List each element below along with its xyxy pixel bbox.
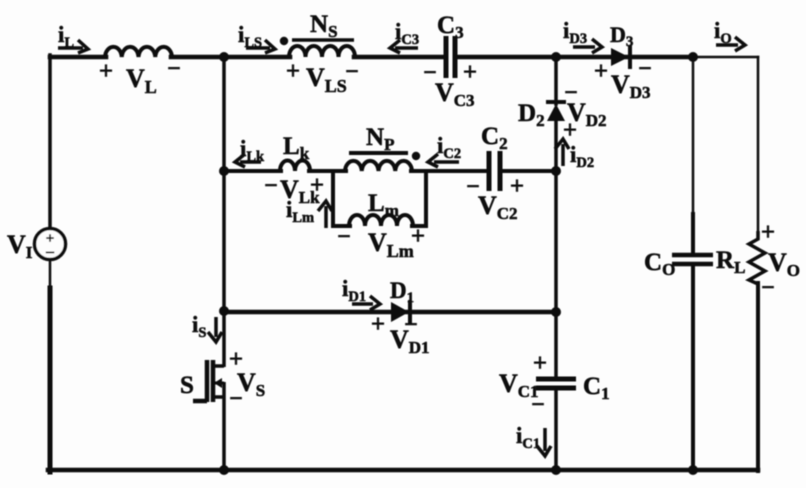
wire NP to C2 — [411, 169, 487, 173]
inductor L coil — [105, 47, 172, 57]
core bar N_S — [292, 38, 354, 42]
current arrow i_LS — [246, 40, 275, 53]
wire D1 branch y312 — [224, 310, 556, 315]
diode D1 — [391, 300, 410, 324]
wire Lm loop right bottom — [412, 224, 426, 228]
svg-text:−: − — [761, 275, 775, 301]
svg-text:+: + — [286, 58, 300, 85]
resistor R_L zigzag — [749, 231, 765, 284]
capacitor Co plates — [672, 255, 713, 264]
wire center vertical x224 top — [222, 55, 226, 313]
wire C1 to bottom rail — [554, 389, 558, 470]
svg-text:−: − — [638, 56, 652, 82]
wire Co to bottom rail — [691, 265, 695, 470]
winding N_P coil — [345, 161, 412, 171]
wire C3 to D3 node — [459, 55, 693, 60]
wire Lm loop left vertical — [331, 171, 335, 226]
node E junction dot (556,171) — [551, 166, 561, 176]
wire top rail mid segment — [171, 55, 290, 60]
current arrow i_S — [208, 317, 222, 342]
voltage source V_I — [35, 229, 66, 260]
wire node to RL corner — [693, 56, 758, 59]
wire bottom rail — [48, 468, 758, 473]
node I junction dot (556,470) — [551, 465, 561, 475]
node J junction dot (693,470) — [688, 465, 698, 475]
node A junction dot (224,57) — [219, 52, 229, 62]
wire Lm loop left bottom — [333, 224, 350, 228]
node G junction dot (556,312) — [551, 307, 561, 317]
current arrow i_Lm — [318, 201, 332, 228]
wire N_S to C3 — [354, 55, 443, 60]
wire right vertical x556 middle — [554, 118, 558, 314]
wire left vertical below source thin — [49, 259, 52, 289]
capacitor C3 plates — [446, 36, 455, 78]
current arrow i_O — [716, 37, 745, 51]
capacitor C2 plates — [489, 151, 500, 191]
current arrow i_D3 — [573, 39, 602, 53]
wire C2 to D2 node — [503, 169, 556, 173]
polarity dot N_P — [412, 152, 420, 160]
wire Co vertical thick — [691, 214, 695, 254]
svg-text:+: + — [533, 350, 547, 377]
current arrow i_C2 — [428, 154, 459, 167]
wire RL vertical thin upper — [757, 57, 760, 231]
inductor L_k coil — [280, 161, 310, 171]
current arrow i_L — [58, 40, 88, 53]
wire RL to bottom rail — [756, 283, 760, 471]
svg-text:+: + — [99, 58, 113, 85]
inductor L_m coil — [349, 215, 413, 226]
polarity dot N_S — [280, 37, 288, 45]
node H junction dot (224,470) — [219, 465, 229, 475]
wire Lm loop right vertical — [424, 171, 428, 226]
svg-text:+: + — [510, 173, 524, 200]
svg-text:−: − — [337, 224, 351, 250]
node B junction dot (556,57) — [551, 52, 561, 62]
current arrow i_D2 — [555, 139, 569, 166]
svg-text:−: − — [345, 59, 359, 85]
wire right vertical x556 top — [554, 57, 558, 104]
svg-text:+: + — [411, 223, 425, 250]
current arrow i_C1 — [537, 428, 551, 456]
node D junction dot (224,171) — [219, 166, 229, 176]
diode D3 — [611, 45, 630, 69]
winding N_S coil — [289, 46, 355, 57]
svg-text:−: − — [531, 392, 545, 418]
wire top rail left segment — [50, 55, 106, 60]
svg-text:+: + — [761, 219, 775, 246]
svg-text:−: − — [264, 173, 278, 199]
diode D2 — [546, 102, 566, 121]
node C junction dot (693,57) — [688, 52, 698, 62]
svg-text:+: + — [594, 58, 608, 85]
wire left vertical upper — [48, 55, 52, 229]
wire Lk to NP — [309, 169, 346, 173]
svg-text:−: − — [229, 386, 243, 412]
current arrow i_D1 — [352, 296, 380, 310]
wire mid branch y171 segment 1 — [224, 169, 281, 173]
current arrow i_Lk — [235, 154, 261, 167]
wire x556 to C1 — [554, 312, 558, 378]
transistor S MOSFET — [193, 311, 224, 471]
current arrow i_C3 — [390, 40, 418, 53]
capacitor C1 plates — [536, 379, 576, 388]
svg-text:+: + — [310, 172, 324, 199]
svg-text:+: + — [371, 311, 385, 338]
svg-text:S: S — [180, 372, 194, 399]
core bar N_P — [349, 151, 408, 155]
svg-text:+: + — [463, 59, 477, 86]
wire left vertical lower thick — [48, 288, 53, 472]
svg-text:−: − — [167, 56, 181, 82]
svg-text:−: − — [45, 243, 55, 262]
node F junction dot (224,311) — [219, 306, 229, 316]
wire Co vertical thin upper — [692, 57, 695, 215]
